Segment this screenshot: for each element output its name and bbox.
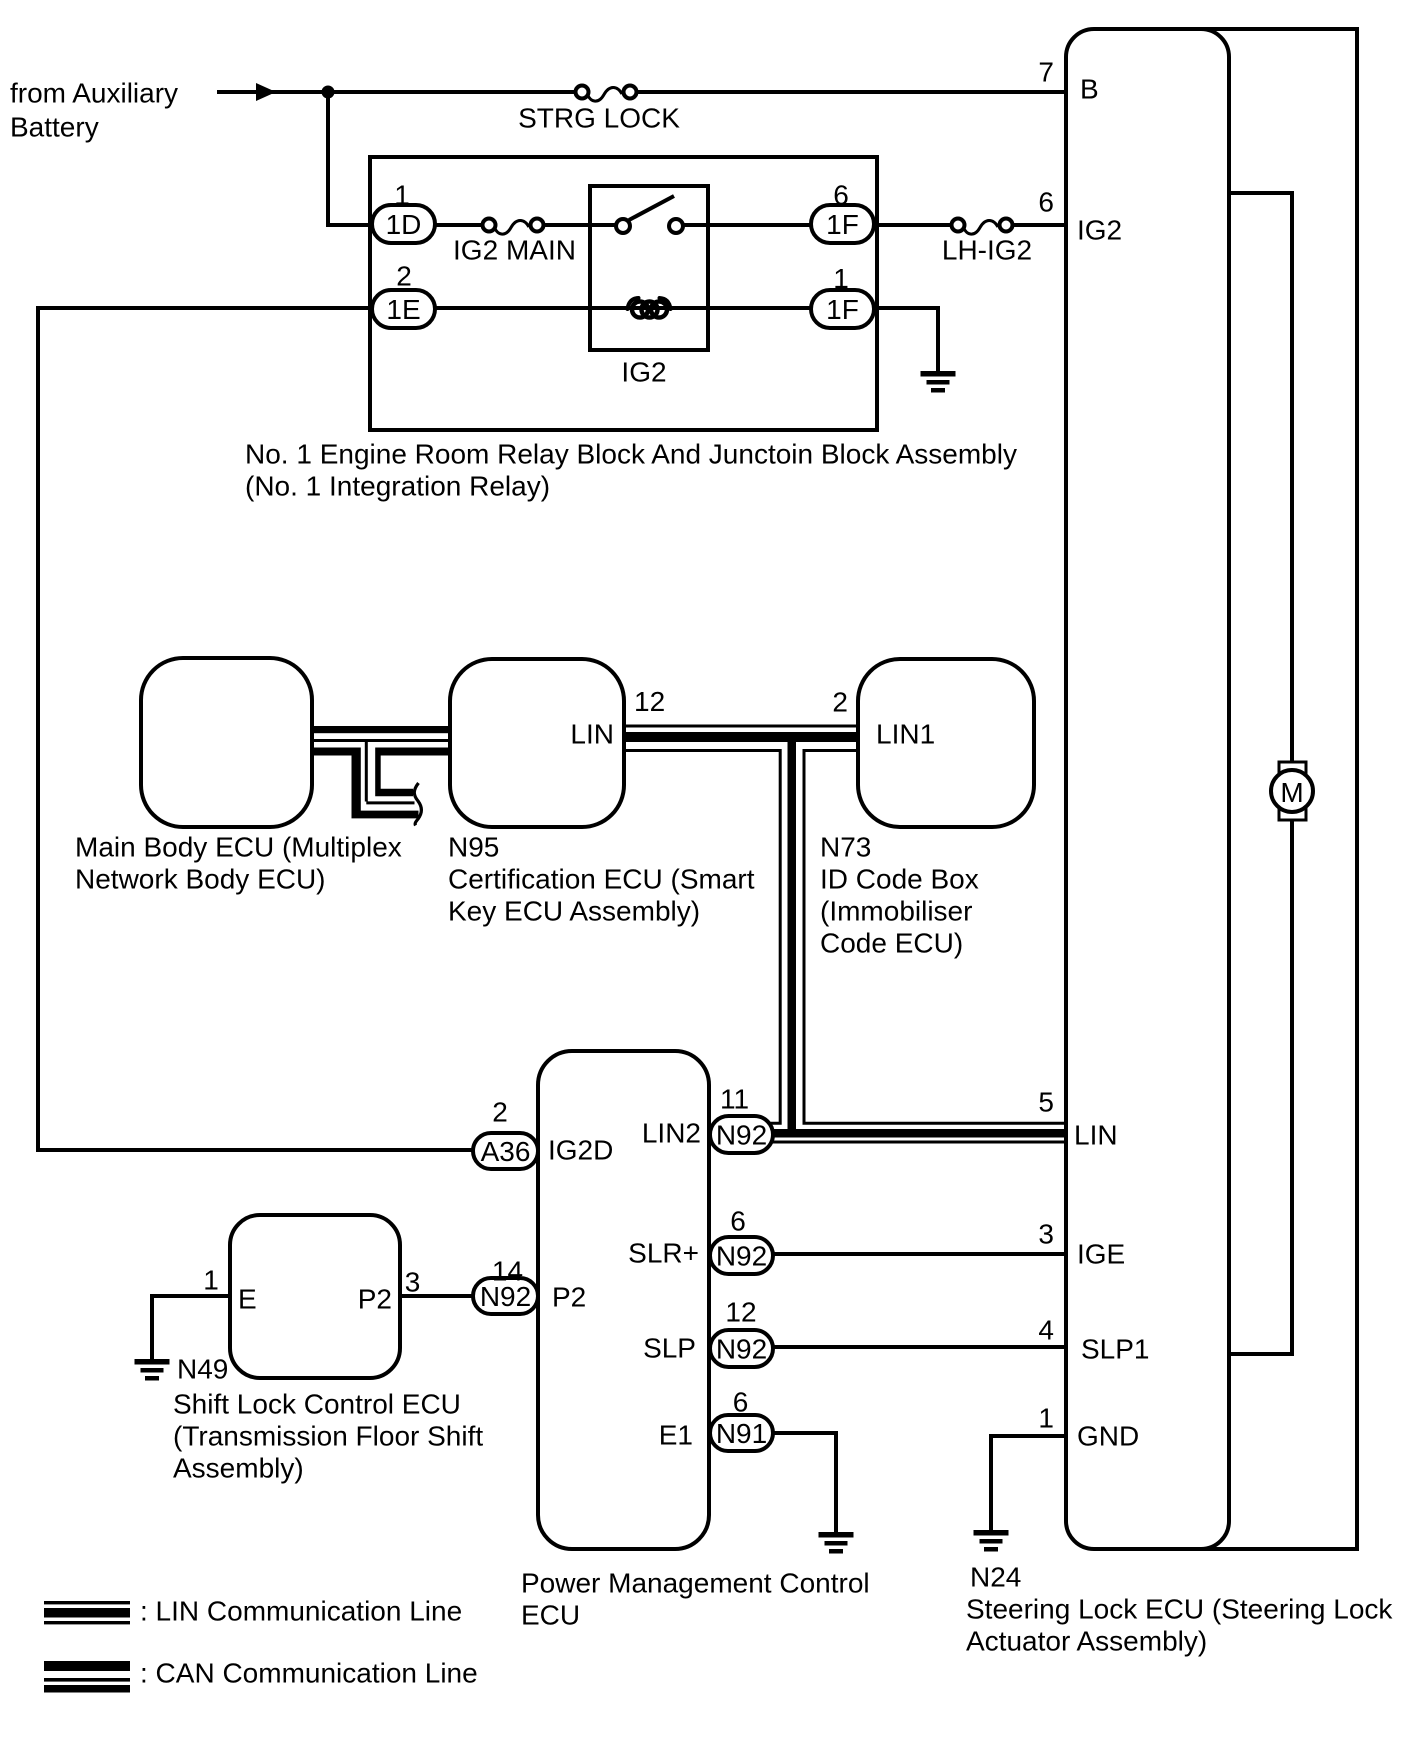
- svg-text:11: 11: [720, 1084, 749, 1115]
- svg-text:7: 7: [1038, 57, 1054, 88]
- svg-text:ID Code Box: ID Code Box: [820, 864, 979, 895]
- svg-text:Network Body ECU): Network Body ECU): [75, 864, 326, 895]
- svg-text:1F: 1F: [826, 209, 859, 240]
- svg-text:IG2 MAIN: IG2 MAIN: [453, 235, 576, 266]
- svg-text:Actuator Assembly): Actuator Assembly): [966, 1626, 1207, 1657]
- svg-text:Assembly): Assembly): [173, 1453, 304, 1484]
- svg-text:A36: A36: [481, 1136, 531, 1167]
- svg-text:N73: N73: [820, 832, 871, 863]
- svg-text:6: 6: [730, 1206, 746, 1237]
- svg-text:Main Body ECU (Multiplex: Main Body ECU (Multiplex: [75, 832, 402, 863]
- svg-text:P2: P2: [358, 1284, 392, 1315]
- svg-text:6: 6: [733, 1387, 749, 1418]
- svg-text:12: 12: [725, 1297, 756, 1328]
- svg-text:1D: 1D: [386, 209, 422, 240]
- svg-text:6: 6: [1038, 187, 1054, 218]
- svg-text:1: 1: [203, 1265, 219, 1296]
- svg-text:N24: N24: [970, 1562, 1021, 1593]
- svg-text:1: 1: [394, 180, 410, 211]
- svg-text:: CAN Communication Line: : CAN Communication Line: [140, 1658, 478, 1689]
- svg-text:B: B: [1080, 74, 1099, 105]
- svg-text:1E: 1E: [386, 294, 420, 325]
- svg-text:Power Management Control: Power Management Control: [521, 1568, 870, 1599]
- svg-text:N91: N91: [716, 1418, 767, 1449]
- svg-text:IGE: IGE: [1077, 1239, 1125, 1270]
- svg-text:LIN1: LIN1: [876, 719, 935, 750]
- svg-text:Key ECU Assembly): Key ECU Assembly): [448, 896, 700, 927]
- svg-text:3: 3: [405, 1267, 421, 1298]
- svg-text:from Auxiliary: from Auxiliary: [10, 78, 178, 109]
- svg-text:5: 5: [1038, 1087, 1054, 1118]
- svg-text:12: 12: [634, 686, 665, 717]
- svg-text:2: 2: [492, 1097, 508, 1128]
- svg-text:Shift Lock Control ECU: Shift Lock Control ECU: [173, 1389, 461, 1420]
- svg-text:(Immobiliser: (Immobiliser: [820, 896, 972, 927]
- svg-text:LIN: LIN: [1074, 1120, 1118, 1151]
- svg-text:M: M: [1280, 777, 1303, 808]
- svg-text:LIN2: LIN2: [642, 1118, 701, 1149]
- svg-text:E1: E1: [659, 1420, 693, 1451]
- svg-text:2: 2: [832, 687, 848, 718]
- svg-text:1: 1: [1038, 1403, 1054, 1434]
- svg-text:Certification ECU (Smart: Certification ECU (Smart: [448, 864, 755, 895]
- svg-text:1: 1: [833, 263, 849, 294]
- svg-text:N92: N92: [716, 1241, 767, 1272]
- svg-text:N92: N92: [480, 1281, 531, 1312]
- svg-text:IG2D: IG2D: [548, 1135, 613, 1166]
- svg-text:(Transmission Floor Shift: (Transmission Floor Shift: [173, 1421, 483, 1452]
- svg-text:Code ECU): Code ECU): [820, 928, 963, 959]
- svg-text:P2: P2: [552, 1282, 586, 1313]
- svg-text:SLR+: SLR+: [628, 1238, 699, 1269]
- svg-text:3: 3: [1038, 1219, 1054, 1250]
- svg-text:2: 2: [396, 261, 412, 292]
- svg-text:E: E: [238, 1284, 257, 1315]
- svg-text:4: 4: [1038, 1315, 1054, 1346]
- svg-text:(No. 1 Integration Relay): (No. 1 Integration Relay): [245, 471, 550, 502]
- svg-text:: LIN Communication Line: : LIN Communication Line: [140, 1596, 462, 1627]
- svg-text:N92: N92: [716, 1334, 767, 1365]
- svg-text:N95: N95: [448, 832, 499, 863]
- svg-text:No. 1 Engine Room Relay Block: No. 1 Engine Room Relay Block And Juncto…: [245, 439, 1017, 470]
- svg-text:N92: N92: [716, 1120, 767, 1151]
- svg-text:ECU: ECU: [521, 1600, 580, 1631]
- svg-text:SLP: SLP: [643, 1333, 696, 1364]
- svg-text:GND: GND: [1077, 1421, 1139, 1452]
- svg-text:Steering Lock ECU (Steering Lo: Steering Lock ECU (Steering Lock: [966, 1594, 1393, 1625]
- svg-text:LH-IG2: LH-IG2: [942, 235, 1032, 266]
- svg-text:IG2: IG2: [621, 357, 666, 388]
- svg-text:N49: N49: [177, 1354, 228, 1385]
- svg-text:LIN: LIN: [570, 719, 614, 750]
- svg-text:STRG LOCK: STRG LOCK: [518, 103, 680, 134]
- svg-text:SLP1: SLP1: [1081, 1334, 1150, 1365]
- svg-text:IG2: IG2: [1077, 215, 1122, 246]
- svg-text:6: 6: [833, 180, 849, 211]
- svg-text:Battery: Battery: [10, 112, 99, 143]
- svg-text:1F: 1F: [826, 294, 859, 325]
